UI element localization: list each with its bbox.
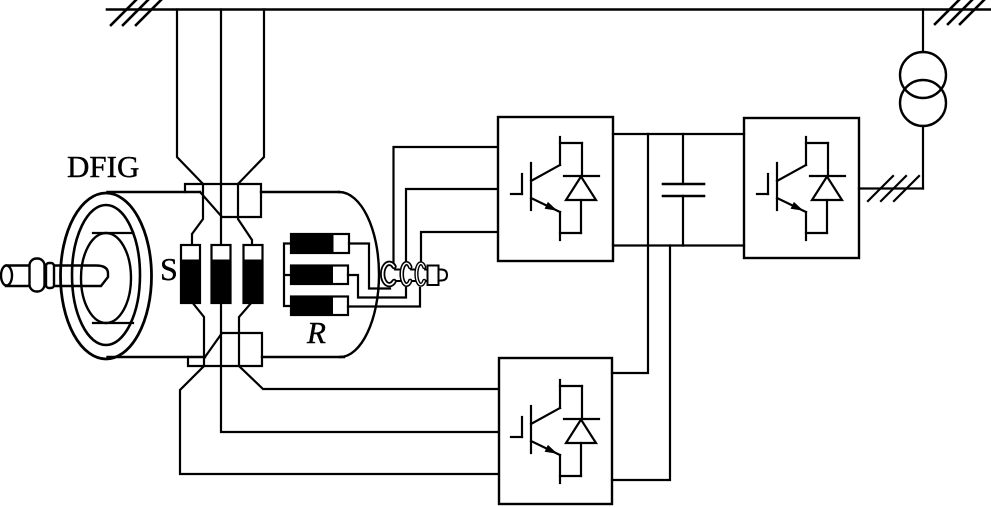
svg-text:R: R — [306, 315, 326, 350]
svg-text:S: S — [160, 251, 178, 287]
svg-text:DFIG: DFIG — [67, 149, 139, 184]
